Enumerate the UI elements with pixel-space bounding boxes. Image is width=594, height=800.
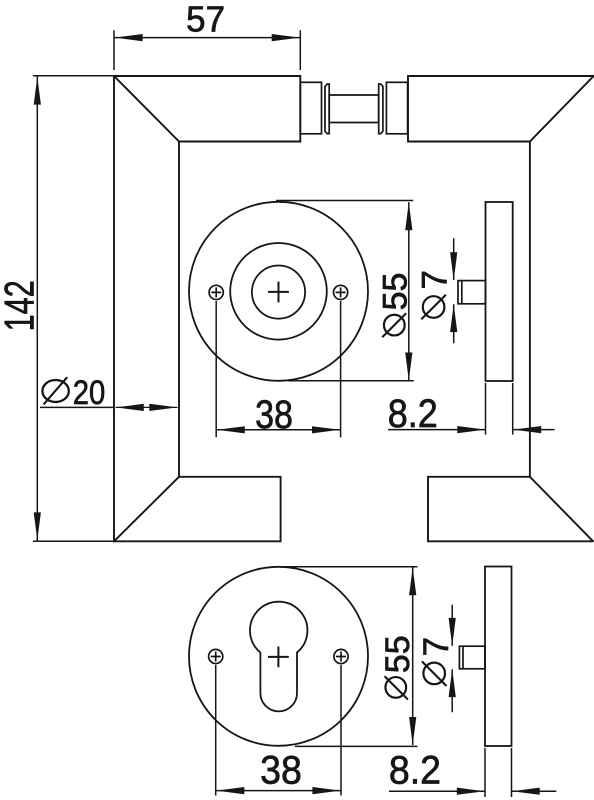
svg-text:20: 20 [73,373,106,412]
collar right [386,82,407,134]
svg-text:142: 142 [0,280,43,331]
svg-text:8.2: 8.2 [389,749,441,793]
screw right lower [334,649,348,663]
dimension D7 upper [450,238,457,343]
escutcheon outer circle [189,567,368,746]
screw left [209,285,223,299]
dimension 8.2 upper [388,383,555,435]
ring left [325,84,329,134]
center cross [268,282,289,303]
svg-text:55: 55 [379,635,417,673]
side plate upper [486,202,513,381]
dimension 38 lower [216,665,341,796]
ring right [379,84,383,134]
side plate lower [485,567,512,747]
dimension D55 lower [283,567,418,747]
middle circle [230,243,327,340]
center cross lower [268,647,289,668]
collar left [300,82,321,134]
inner circle [252,266,305,319]
dimension 8.2 lower [389,748,556,797]
svg-text:8.2: 8.2 [388,392,438,436]
screw left lower [209,649,223,663]
dimension 142 [33,76,113,541]
screw right [334,285,348,299]
spindle assembly [300,82,407,134]
dimension D7 lower [449,605,456,713]
rosette front view [189,202,368,381]
spindle bar [329,95,379,123]
dimension D55 upper [276,201,414,381]
svg-text:57: 57 [186,0,225,40]
knob pair outline (top view) [114,76,594,541]
dimension 38 upper [216,301,340,437]
euro profile keyhole [250,602,307,712]
pin lower [459,646,485,669]
svg-text:7: 7 [416,270,455,289]
outer circle [189,202,368,381]
pin upper [458,281,486,304]
svg-text:7: 7 [417,637,456,656]
dimension D20 [42,377,68,404]
svg-text:38: 38 [255,391,293,436]
dimension 57 [114,30,300,70]
svg-text:55: 55 [376,273,414,311]
svg-text:38: 38 [260,749,302,793]
